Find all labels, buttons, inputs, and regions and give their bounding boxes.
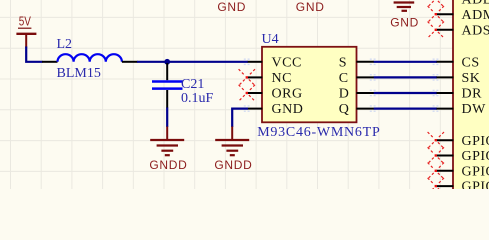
svg-text:GND: GND [390, 15, 419, 29]
pin GPIO4 [437, 180, 489, 195]
svg-text:NC: NC [272, 71, 292, 86]
svg-text:0.1uF: 0.1uF [181, 91, 214, 106]
pin GPIO3 [437, 164, 489, 179]
svg-text:CS: CS [462, 55, 480, 70]
pin hot-end markers [244, 59, 439, 112]
pin D [339, 87, 374, 102]
pin DW [437, 102, 487, 117]
junction [164, 59, 170, 65]
MCU U? body (right, clipped) [453, 0, 489, 200]
op-amp U4 body [262, 47, 357, 123]
pin NC [248, 71, 292, 86]
svg-text:ORG: ORG [272, 87, 303, 102]
svg-text:M93C46-WMN6TP: M93C46-WMN6TP [257, 125, 380, 140]
svg-text:DR: DR [462, 87, 483, 102]
pin ADS [437, 23, 489, 38]
wire S to CS [374, 61, 437, 63]
svg-text:ADM: ADM [462, 8, 489, 23]
svg-text:C: C [339, 71, 349, 86]
svg-text:ADS: ADS [462, 23, 489, 38]
svg-text:ADL: ADL [462, 0, 489, 7]
svg-text:GND: GND [296, 0, 325, 14]
no-connect X on ORG [239, 85, 255, 101]
ground GNDD (under C21) [149, 127, 187, 173]
no-connect X on ADL [428, 0, 444, 7]
svg-text:L2: L2 [57, 37, 73, 52]
no-connect X on ADM [428, 6, 444, 22]
svg-text:GNDD: GNDD [149, 158, 187, 172]
pin DR [437, 87, 483, 102]
wire D to DR [374, 92, 437, 94]
svg-text:VCC: VCC [272, 55, 302, 70]
no-connect X on GPIO1 [428, 132, 444, 148]
wire Q to DW [374, 107, 437, 109]
svg-text:GPIO: GPIO [462, 164, 489, 179]
svg-text:BLM15: BLM15 [57, 66, 101, 81]
svg-text:5V: 5V [19, 15, 32, 29]
pin ADL [437, 0, 489, 7]
pin CS [437, 55, 480, 70]
pin Q [339, 102, 374, 117]
svg-text:GND: GND [217, 0, 246, 14]
pin ORG [248, 87, 303, 102]
svg-text:Q: Q [339, 102, 350, 117]
pin GND [248, 102, 304, 117]
inductor L2 [42, 54, 138, 62]
no-connect X on GPIO3 [428, 163, 444, 179]
pin GPIO1 [437, 134, 489, 149]
no-connect X on NC [239, 69, 255, 85]
svg-text:SK: SK [462, 71, 481, 86]
svg-text:D: D [339, 87, 350, 102]
no-connect X on ADS [428, 22, 444, 38]
wire 5V to L2 [26, 47, 42, 62]
no-connect X on GPIO4 [428, 178, 444, 194]
svg-text:DW: DW [462, 102, 487, 117]
svg-text:GND: GND [272, 102, 304, 117]
pin VCC [248, 55, 302, 70]
svg-text:GPIO: GPIO [462, 180, 489, 189]
pin C [339, 71, 374, 86]
wire C to SK [374, 76, 437, 78]
no-connect X on GPIO2 [428, 147, 444, 163]
svg-text:GPIO: GPIO [462, 149, 489, 164]
svg-text:U4: U4 [262, 32, 279, 47]
power port 5V [16, 15, 36, 48]
svg-text:C21: C21 [181, 77, 204, 92]
wire L2 to U4 VCC [137, 61, 248, 63]
ground GNDD (under U4) [214, 127, 252, 173]
svg-text:GNDD: GNDD [214, 158, 252, 172]
svg-text:S: S [339, 55, 347, 70]
pin GPIO2 [437, 149, 489, 164]
sheet background [0, 0, 489, 189]
wire C21 to GNDD [166, 108, 168, 128]
capacitor C21 [152, 63, 183, 108]
wire U4 GND to GNDD [232, 109, 248, 127]
pin SK [437, 71, 481, 86]
pin ADM [437, 8, 489, 23]
svg-text:GPIO: GPIO [462, 134, 489, 149]
ground GND (top right) [390, 3, 419, 30]
pin S [339, 55, 374, 70]
